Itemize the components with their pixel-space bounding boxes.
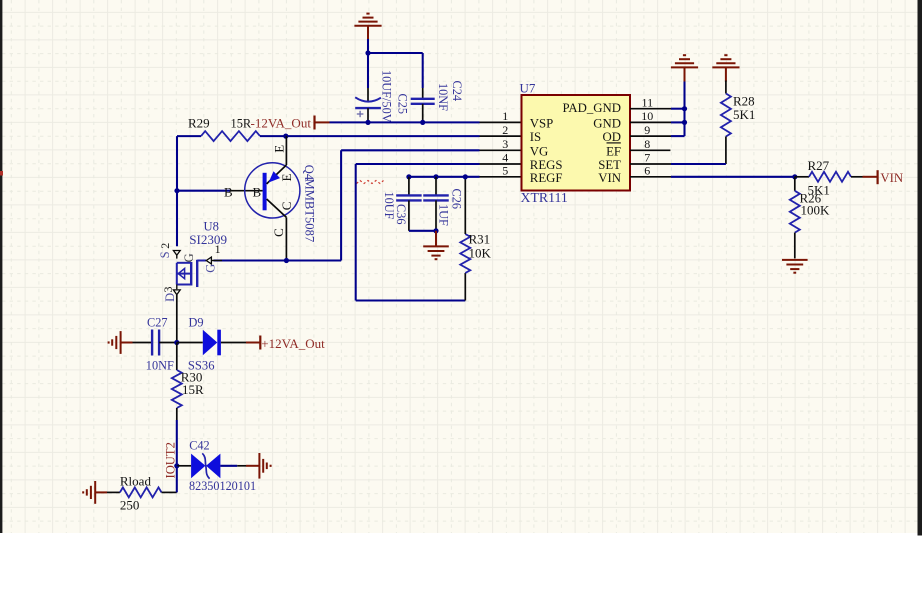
svg-text:15R: 15R	[182, 382, 204, 397]
svg-text:10: 10	[641, 109, 653, 123]
svg-text:VG: VG	[530, 144, 548, 158]
svg-text:OD: OD	[603, 130, 621, 144]
svg-text:10UF: 10UF	[382, 192, 396, 220]
svg-text:C27: C27	[147, 316, 168, 330]
svg-text:15R: 15R	[231, 116, 252, 130]
svg-text:3: 3	[161, 287, 175, 293]
svg-text:+12VA_Out: +12VA_Out	[261, 336, 325, 351]
svg-text:6: 6	[644, 164, 650, 178]
svg-text:C42: C42	[189, 439, 210, 453]
svg-text:-12VA_Out: -12VA_Out	[251, 115, 312, 130]
svg-text:G: G	[182, 253, 196, 262]
svg-text:PAD_GND: PAD_GND	[562, 101, 621, 115]
svg-text:8: 8	[644, 137, 650, 151]
svg-text:10NF: 10NF	[436, 83, 450, 111]
svg-text:C: C	[279, 202, 294, 211]
svg-text:VSP: VSP	[530, 116, 553, 130]
svg-text:EF: EF	[606, 144, 621, 158]
svg-text:VIN: VIN	[880, 171, 903, 185]
svg-text:C24: C24	[450, 81, 464, 102]
svg-text:250: 250	[120, 497, 139, 512]
svg-text:10K: 10K	[469, 246, 492, 261]
svg-text:E: E	[272, 145, 287, 153]
svg-text:XTR111: XTR111	[521, 190, 568, 205]
svg-text:E: E	[279, 174, 294, 182]
svg-text:10NF: 10NF	[146, 359, 174, 373]
svg-text:G: G	[204, 264, 218, 273]
svg-text:1: 1	[215, 242, 221, 256]
svg-text:MMBT5087: MMBT5087	[303, 179, 317, 243]
svg-text:5: 5	[502, 164, 508, 178]
svg-text:REGF: REGF	[530, 171, 563, 185]
svg-text:B: B	[253, 184, 262, 199]
svg-text:5K1: 5K1	[733, 107, 755, 122]
svg-text:SI2309: SI2309	[189, 232, 227, 247]
svg-text:VIN: VIN	[598, 171, 621, 185]
svg-text:1UF: 1UF	[437, 204, 451, 226]
svg-text:S: S	[158, 251, 172, 258]
svg-text:2: 2	[158, 243, 172, 249]
svg-text:IS: IS	[530, 130, 541, 144]
svg-text:3: 3	[502, 137, 508, 151]
svg-text:D: D	[163, 293, 177, 302]
svg-text:B: B	[224, 184, 233, 199]
svg-text:82350120101: 82350120101	[189, 479, 256, 493]
svg-text:C: C	[271, 228, 286, 237]
svg-text:C36: C36	[394, 204, 408, 225]
svg-text:U7: U7	[520, 80, 536, 95]
svg-text:R27: R27	[808, 158, 830, 173]
svg-text:R29: R29	[188, 115, 210, 130]
svg-text:2: 2	[502, 123, 508, 137]
svg-text:1: 1	[502, 109, 508, 123]
svg-text:100K: 100K	[801, 202, 831, 217]
svg-text:Rload: Rload	[120, 474, 152, 489]
svg-text:IOUT2: IOUT2	[164, 442, 178, 478]
svg-text:GND: GND	[593, 116, 621, 130]
svg-text:10UF/50V: 10UF/50V	[380, 70, 394, 123]
svg-text:D9: D9	[189, 316, 204, 330]
svg-text:9: 9	[644, 123, 650, 137]
svg-text:11: 11	[642, 95, 654, 109]
svg-text:C25: C25	[396, 94, 410, 115]
svg-text:R31: R31	[469, 232, 491, 247]
